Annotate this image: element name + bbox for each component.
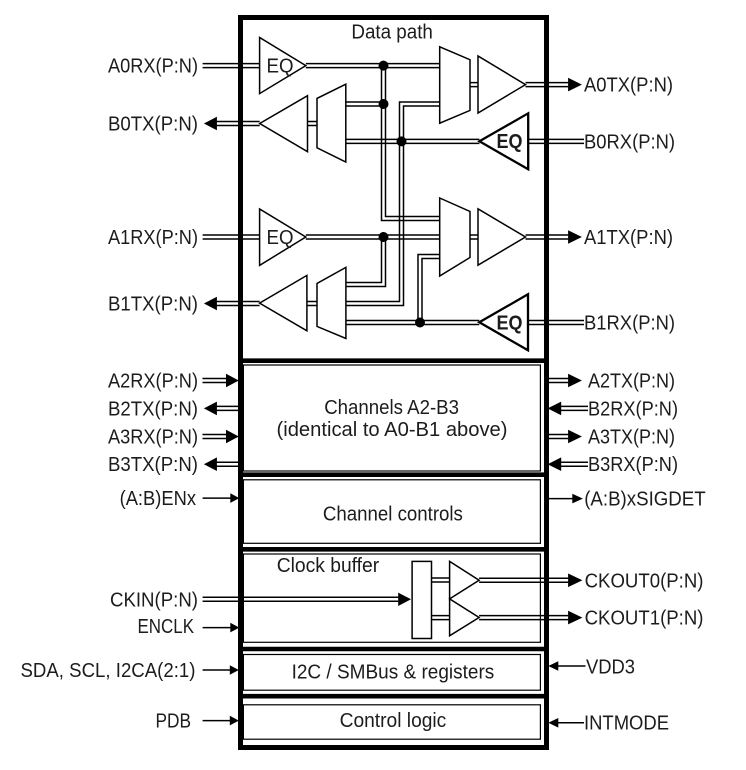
wire B3RX arrow [548, 457, 588, 471]
driver A1 [478, 209, 526, 265]
wire SDA arrow [203, 665, 239, 675]
node B1RX junction [415, 318, 425, 328]
wire V1 A0RX down to mux A1 [382, 66, 440, 221]
svg-text:(A:B)ENx: (A:B)ENx [120, 488, 196, 510]
svg-text:SDA, SCL, I2CA(2:1): SDA, SCL, I2CA(2:1) [21, 660, 196, 682]
arrowhead CKIN [398, 593, 411, 606]
mux A0 [440, 47, 470, 123]
box control logic [243, 705, 540, 739]
wire B1RX input [528, 321, 584, 325]
wire VDD3 arrow [548, 661, 585, 671]
wire rect to clock driver 1 [432, 616, 450, 620]
divider clock bottom [238, 647, 549, 652]
node A0RX junction [379, 61, 389, 71]
driver A0 [478, 56, 526, 113]
wire B3TX arrow [204, 457, 243, 471]
wire A3TX arrow [544, 430, 582, 444]
svg-text:B2TX(P:N): B2TX(P:N) [108, 398, 198, 420]
wire mux A0 to driver A0 [470, 83, 478, 87]
main outer box [241, 18, 547, 748]
EQ buffer A1 [260, 209, 306, 265]
wire mux B1 to driver B1 [307, 302, 317, 306]
mux B0 [317, 84, 346, 162]
node B0RX junction [397, 136, 407, 146]
svg-text:EQ: EQ [497, 131, 523, 153]
svg-text:A1TX(P:N): A1TX(P:N) [584, 227, 673, 249]
arrowhead B0TX [204, 117, 217, 131]
wire B1RX riser to mux A1 [418, 255, 440, 323]
svg-text:CKIN(P:N): CKIN(P:N) [110, 589, 198, 611]
wire A3RX arrow [203, 430, 239, 444]
svg-text:B2RX(P:N): B2RX(P:N) [588, 398, 678, 420]
wire EQ A0 to mux A0 [306, 64, 440, 68]
EQ buffer B0 [479, 113, 528, 169]
wire A0RX branch to mux B0 [346, 102, 384, 106]
svg-text:A3TX(P:N): A3TX(P:N) [588, 426, 675, 448]
box channels A2-B3 [243, 365, 540, 471]
node A1RX junction [379, 232, 389, 242]
svg-text:A0TX(P:N): A0TX(P:N) [584, 75, 673, 97]
clock mux rect [412, 561, 431, 638]
arrowhead CKOUT0 [568, 574, 582, 588]
wire rect to clock driver 0 [432, 578, 450, 582]
arrowhead B1TX [204, 297, 217, 311]
wire ENx arrow [203, 493, 240, 503]
wire CKIN input [203, 597, 399, 601]
svg-text:Data path: Data path [351, 21, 433, 43]
divider data path bottom [238, 358, 549, 363]
svg-text:CKOUT1(P:N): CKOUT1(P:N) [585, 607, 704, 629]
clock driver 0 [450, 561, 480, 599]
divider channels bottom [238, 472, 549, 477]
wire CKOUT0 output [479, 578, 568, 582]
wire INTMODE arrow [548, 718, 584, 728]
node V1 to B0 mux junction [379, 99, 389, 109]
svg-text:A1RX(P:N): A1RX(P:N) [108, 227, 198, 249]
svg-text:Control logic: Control logic [340, 710, 447, 732]
svg-text:PDB: PDB [156, 710, 192, 732]
wire CKOUT1 output [479, 616, 568, 620]
svg-text:A2RX(P:N): A2RX(P:N) [108, 370, 198, 392]
wire A1RX branch to mux B1 [346, 237, 386, 287]
EQ buffer A0 [260, 38, 306, 94]
arrowhead CKOUT1 [568, 611, 582, 625]
wire A1TX output [526, 235, 569, 239]
driver B1 [260, 275, 307, 330]
svg-text:Channel controls: Channel controls [323, 504, 463, 526]
svg-text:B1RX(P:N): B1RX(P:N) [584, 312, 675, 334]
svg-text:(identical to A0-B1 above): (identical to A0-B1 above) [277, 419, 508, 441]
wire B0RX input [528, 139, 584, 143]
clock driver 1 [450, 599, 480, 636]
wire A2RX arrow [203, 374, 239, 388]
svg-text:B3TX(P:N): B3TX(P:N) [108, 454, 198, 476]
wire B0TX output [217, 122, 260, 126]
mux B1 [317, 267, 346, 338]
wire ENCLK arrow [203, 623, 240, 633]
svg-text:EQ: EQ [267, 55, 294, 77]
box i2c smbus [243, 655, 540, 691]
wire A0TX output [526, 83, 569, 87]
wire B2TX arrow [204, 402, 243, 416]
wire A0RX input [203, 64, 260, 68]
divider i2c bottom [238, 694, 549, 699]
wire EQ B0 to mux B0 [346, 139, 480, 143]
wire B1TX output [217, 302, 260, 306]
box clock buffer [243, 554, 540, 642]
wire A2TX arrow [544, 374, 582, 388]
wire PDB arrow [203, 716, 239, 726]
svg-text:(A:B)xSIGDET: (A:B)xSIGDET [584, 488, 706, 510]
svg-text:B0TX(P:N): B0TX(P:N) [108, 113, 198, 135]
svg-text:A3RX(P:N): A3RX(P:N) [108, 426, 198, 448]
svg-text:EQ: EQ [267, 227, 294, 249]
svg-text:B1TX(P:N): B1TX(P:N) [108, 293, 198, 315]
wire A1RX input [203, 235, 260, 239]
wire B2RX arrow [548, 402, 588, 416]
svg-text:EQ: EQ [497, 312, 523, 334]
svg-text:VDD3: VDD3 [586, 657, 635, 679]
svg-text:A2TX(P:N): A2TX(P:N) [588, 370, 675, 392]
svg-text:CKOUT0(P:N): CKOUT0(P:N) [585, 570, 704, 592]
arrowhead A0TX [568, 78, 582, 92]
svg-text:B3RX(P:N): B3RX(P:N) [588, 454, 678, 476]
wire EQ A1 to mux A1 [306, 235, 440, 239]
divider controls bottom [238, 547, 549, 552]
svg-text:Channels A2-B3: Channels A2-B3 [324, 397, 459, 419]
wire mux B0 to driver B0 [308, 122, 318, 126]
EQ buffer B1 [479, 294, 528, 350]
svg-text:ENCLK: ENCLK [138, 616, 195, 638]
driver B0 [260, 96, 308, 152]
wire B0RX branch to mux A0 [346, 102, 440, 306]
box channel controls [243, 480, 540, 544]
svg-text:INTMODE: INTMODE [584, 713, 669, 735]
wire EQ B1 to mux B1 [346, 321, 479, 325]
wire SIGDET arrow [549, 494, 583, 504]
arrowhead A1TX [568, 230, 582, 244]
svg-text:I2C / SMBus & registers: I2C / SMBus & registers [292, 661, 495, 683]
mux A1 [440, 198, 470, 276]
wire mux A1 to driver A1 [470, 235, 478, 239]
svg-text:Clock buffer: Clock buffer [277, 555, 380, 577]
svg-text:B0RX(P:N): B0RX(P:N) [584, 131, 675, 153]
svg-text:A0RX(P:N): A0RX(P:N) [108, 56, 198, 78]
